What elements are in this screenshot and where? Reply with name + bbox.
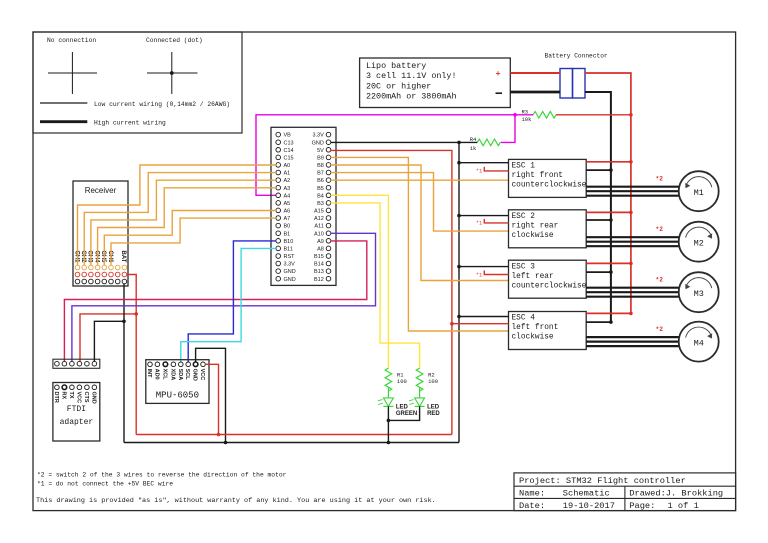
svg-text:CH5: CH5 (100, 251, 106, 264)
Lipo battery BT1 (360, 58, 511, 108)
wire battery - to connector (black, high current) (510, 91, 560, 94)
svg-text:A3: A3 (284, 186, 291, 192)
svg-text:GND: GND (90, 392, 96, 404)
svg-text:B1: B1 (284, 231, 291, 237)
svg-text:*1 = do not connect the +5V BE: *1 = do not connect the +5V BEC wire (37, 481, 173, 488)
svg-text:B7: B7 (317, 171, 324, 177)
motor M3 (679, 272, 719, 312)
wire ESC 3 three motor phases (black, high current) (586, 288, 679, 297)
svg-text:CH1: CH1 (73, 251, 79, 264)
ESC 1 (509, 159, 587, 197)
disclaimer note (36, 497, 436, 505)
svg-text:A9: A9 (317, 239, 324, 245)
LED green D1 (378, 387, 417, 416)
svg-text:No connection: No connection (47, 37, 96, 44)
svg-text:DTR: DTR (53, 392, 59, 403)
svg-text:B9: B9 (317, 156, 324, 162)
motor M1 (679, 171, 719, 211)
svg-text:100: 100 (397, 378, 407, 385)
label *2 for motor M3 (656, 277, 664, 284)
svg-text:Name:: Name: (519, 489, 545, 499)
svg-text:ESC 4: ESC 4 (512, 315, 536, 323)
label *2 for motor M1 (656, 176, 664, 183)
svg-text:A7: A7 (284, 216, 291, 222)
svg-text:5V: 5V (317, 148, 324, 154)
svg-text:right front: right front (512, 172, 563, 180)
STM32 board U2 (271, 127, 336, 285)
wire STM32 B11 to MPU SDA (cyan) (181, 248, 276, 362)
svg-text:A2: A2 (284, 178, 291, 184)
svg-text:XDA: XDA (169, 369, 175, 381)
battery connector J1 (545, 53, 608, 99)
motor M4 (679, 322, 719, 362)
wire STM32 B9 to ESC4 signal (orange) (331, 157, 509, 331)
svg-text:BAT: BAT (120, 251, 126, 263)
wire R3 right lead to V+ rail (red) (556, 113, 633, 117)
svg-text:VB: VB (284, 133, 292, 139)
wire LED cathodes to ground bus (black) (387, 406, 420, 444)
FTDI adapter U4 (53, 383, 100, 442)
svg-text:B6: B6 (317, 178, 324, 184)
svg-text:C13: C13 (284, 140, 294, 146)
svg-text:+: + (496, 69, 501, 79)
resistor R4 1k (470, 136, 501, 152)
svg-text:ESC 2: ESC 2 (512, 213, 536, 221)
svg-text:Low current wiring (0,14mm2 /: Low current wiring (0,14mm2 / 26AWG) (94, 101, 230, 108)
svg-text:counterclockwise: counterclockwise (512, 182, 587, 190)
svg-text:LED: LED (427, 405, 440, 411)
svg-text:B0: B0 (284, 224, 291, 230)
wire ESC 4 +5V BEC to 5V rail (red) (450, 322, 508, 326)
svg-text:100: 100 (428, 378, 438, 385)
svg-text:A1: A1 (284, 171, 291, 177)
svg-text:B12: B12 (314, 277, 324, 283)
svg-text:3 cell 11.1V only!: 3 cell 11.1V only! (366, 71, 456, 81)
wire ESC 3 battery + (red) (586, 262, 633, 266)
svg-text:B4: B4 (317, 193, 324, 199)
svg-text:VCC: VCC (199, 369, 205, 381)
wire receiver BAT + (red) to 5V rail / FTDI VCC (80, 275, 138, 435)
wire ESC 2 battery + (red) (586, 211, 633, 215)
svg-text:GREEN: GREEN (396, 411, 417, 417)
svg-text:ESC 3: ESC 3 (512, 263, 536, 271)
high current wiring legend line (40, 119, 166, 126)
svg-text:1k: 1k (470, 145, 477, 152)
svg-text:20C or higher: 20C or higher (366, 81, 431, 91)
wire ESC 4 signal ground (black) (457, 315, 508, 319)
svg-text:TX: TX (68, 392, 74, 399)
note *1 BEC wire (37, 481, 173, 488)
svg-text:Connected (dot): Connected (dot) (146, 37, 203, 44)
svg-text:B3: B3 (317, 201, 324, 207)
svg-text:C15: C15 (284, 156, 294, 162)
wire STM32 GND to R4 (black) (331, 141, 478, 145)
wire STM32 A10 to FTDI TX (purple) (72, 233, 376, 361)
svg-text:right rear: right rear (512, 223, 559, 231)
legend box (33, 32, 242, 133)
svg-text:1 of 1: 1 of 1 (668, 501, 699, 511)
svg-text:clockwise: clockwise (512, 232, 554, 240)
svg-text:A6: A6 (284, 209, 291, 215)
svg-text:XCL: XCL (161, 369, 167, 381)
svg-text:*1: *1 (476, 271, 483, 278)
svg-text:counterclockwise: counterclockwise (512, 282, 587, 290)
svg-text:M2: M2 (694, 239, 704, 249)
svg-text:*2: *2 (656, 277, 664, 284)
svg-text:VCC: VCC (75, 392, 81, 404)
note *2 motor direction (37, 471, 287, 478)
wire receiver CH1 to STM32 (orange) (78, 165, 277, 265)
svg-text:RED: RED (427, 411, 440, 417)
wire FTDI header GND to ground bus (black) (94, 320, 125, 362)
svg-text:Receiver: Receiver (85, 186, 117, 195)
svg-text:AD0: AD0 (153, 369, 159, 380)
wire STM32 B3 to R2 / red LED (yellow) (331, 203, 420, 369)
wire connector + to V+ rail (red) (585, 73, 631, 313)
wire battery + to connector (red, high current) (510, 72, 560, 74)
resistor R3 10k (522, 109, 556, 123)
svg-text:CH4: CH4 (93, 251, 99, 264)
wire receiver CH4 to STM32 (orange) (98, 188, 276, 266)
resistor R1 100 (385, 368, 407, 391)
wire A4 net: magenta from STM32 A4 to R3/R4 divider (256, 113, 533, 195)
svg-text:adapter: adapter (60, 418, 94, 427)
wire ESC 1 battery - (black) (586, 168, 613, 172)
wire STM32 B7 to ESC2 signal (orange) (331, 173, 509, 232)
wire +5V bottom bus (red) (136, 434, 452, 436)
svg-text:*2: *2 (656, 226, 664, 233)
svg-text:MPU-6050: MPU-6050 (156, 391, 199, 401)
svg-text:B13: B13 (314, 269, 324, 275)
svg-text:*2: *2 (656, 326, 664, 333)
svg-text:RST: RST (284, 254, 296, 260)
svg-text:GND: GND (192, 369, 198, 381)
wire ESC 1 battery + (red) (586, 160, 633, 164)
svg-text:3.3V: 3.3V (312, 133, 324, 139)
svg-text:SDA: SDA (177, 369, 183, 381)
svg-text:A0: A0 (284, 163, 291, 169)
svg-text:M1: M1 (694, 188, 704, 198)
no-connection cross symbol (48, 52, 97, 94)
wire STM32 B8 to ESC3 signal (orange) (331, 165, 509, 281)
resistor R2 100 (416, 368, 438, 391)
title block (514, 473, 736, 511)
svg-text:Lipo battery: Lipo battery (366, 61, 426, 71)
ESC 2 +5V BEC stub *1 (red, not connected) (476, 219, 509, 227)
wire receiver CH2 to STM32 (orange) (84, 173, 276, 266)
svg-text:clockwise: clockwise (512, 334, 554, 342)
svg-text:A8: A8 (317, 247, 324, 253)
wire ESC 3 signal ground (black) (457, 265, 508, 269)
svg-text:INT: INT (146, 369, 152, 379)
wire ESC 1 signal ground (black) (457, 161, 508, 165)
svg-text:10k: 10k (522, 116, 533, 123)
LED red D2 (409, 387, 440, 416)
wire STM32 B6 to ESC1 signal (orange) (331, 179, 509, 181)
svg-text:M4: M4 (694, 338, 704, 348)
svg-text:GND: GND (284, 277, 296, 283)
wire STM32 5V to +5V vertical (red) (331, 150, 452, 434)
svg-text:2200mAh or 3800mAh: 2200mAh or 3800mAh (366, 92, 456, 102)
wire receiver CH3 to STM32 (orange) (91, 180, 276, 265)
svg-text:RX: RX (60, 392, 66, 400)
ESC 3 (509, 260, 587, 298)
svg-text:FTDI: FTDI (67, 405, 86, 414)
svg-text:ESC 1: ESC 1 (512, 163, 536, 171)
svg-text:This drawing is provided "as i: This drawing is provided "as is", withou… (36, 497, 436, 505)
wire STM32 B4 to R1 / green LED (yellow) (331, 195, 389, 368)
svg-text:A5: A5 (284, 201, 291, 207)
svg-text:A4: A4 (284, 193, 291, 199)
wire ESC 1 three motor phases (black, high current) (586, 187, 679, 196)
connected-dot cross symbol (147, 52, 198, 94)
svg-text:B5: B5 (317, 186, 324, 192)
wire STM32 A9 to FTDI RX (crimson) (64, 241, 366, 362)
svg-text:B15: B15 (314, 254, 324, 260)
svg-text:Battery Connector: Battery Connector (545, 53, 608, 60)
wire ESC 2 battery - (black) (586, 218, 613, 222)
svg-text:3.3V: 3.3V (284, 262, 296, 268)
svg-text:Project: STM32 Flight controll: Project: STM32 Flight controller (519, 476, 686, 486)
ESC 1 +5V BEC stub *1 (red, not connected) (476, 167, 509, 175)
svg-text:Drawed:J. Brokking: Drawed:J. Brokking (629, 489, 723, 499)
wire connector - to GND power rail (black) (585, 92, 611, 322)
svg-text:A12: A12 (314, 216, 324, 222)
motor M2 (679, 222, 719, 262)
label *2 for motor M2 (656, 226, 664, 233)
wire ESC 2 signal ground (black) (457, 214, 508, 218)
svg-text:A10: A10 (314, 231, 324, 237)
wire MPU GND to ground bus (black) (196, 348, 228, 444)
svg-text:C14: C14 (284, 148, 294, 154)
Receiver U3 (73, 181, 128, 286)
wire ESC 4 battery - (black) (586, 320, 613, 324)
svg-text:B11: B11 (284, 247, 293, 253)
svg-text:GND: GND (312, 140, 324, 146)
ESC 2 (509, 210, 587, 248)
wire receiver CH5 to STM32 (orange) (104, 211, 276, 266)
svg-text:SCL: SCL (184, 369, 190, 381)
svg-text:High current wiring: High current wiring (94, 119, 166, 126)
wire ESC 3 battery - (black) (586, 270, 613, 274)
svg-text:B10: B10 (284, 239, 294, 245)
svg-text:A15: A15 (314, 209, 324, 215)
label *2 for motor M4 (656, 326, 664, 333)
svg-text:B8: B8 (317, 163, 324, 169)
svg-text:Date:: Date: (519, 501, 545, 511)
wire ground bottom bus (black) (124, 442, 459, 444)
wire ESC 4 three motor phases (black, high current) (586, 337, 679, 346)
svg-text:19-10-2017: 19-10-2017 (563, 501, 615, 511)
wire receiver GND (black) down to ground bus (123, 284, 125, 443)
ESC 4 (509, 312, 587, 350)
svg-text:CH6: CH6 (107, 251, 113, 264)
svg-text:left front: left front (512, 324, 559, 332)
svg-text:GND: GND (284, 269, 296, 275)
svg-text:*1: *1 (476, 168, 483, 175)
svg-text:A11: A11 (314, 224, 323, 230)
wire ESC 2 three motor phases (black, high current) (586, 237, 679, 246)
wire STM32 B10 to MPU SCL (dark blue) (188, 241, 276, 362)
svg-text:CH2: CH2 (80, 251, 86, 264)
svg-text:LED: LED (396, 405, 409, 411)
wire MPU VCC to +5V bus (red) (205, 364, 220, 436)
wire receiver CH6 to STM32 (orange) (111, 218, 276, 265)
wire ESC signal-ground vertical bus (black) (458, 142, 460, 442)
svg-text:Schematic: Schematic (563, 489, 610, 499)
svg-text:*2: *2 (656, 176, 664, 183)
svg-text:*1: *1 (476, 220, 483, 227)
svg-text:CH3: CH3 (87, 251, 93, 264)
svg-text:CTS: CTS (83, 392, 89, 403)
low current wiring legend line (40, 101, 230, 108)
svg-text:left rear: left rear (512, 273, 554, 281)
svg-text:Page:: Page: (629, 501, 655, 511)
svg-text:M3: M3 (694, 289, 704, 299)
MPU-6050 gyro U1 (146, 360, 209, 404)
FTDI 6-pin header J2 (53, 359, 100, 368)
svg-text:B14: B14 (314, 262, 324, 268)
ESC 3 +5V BEC stub *1 (red, not connected) (476, 271, 509, 279)
wire ESC 4 battery + (red) (586, 312, 633, 316)
svg-text:*2 = switch 2 of the 3 wires t: *2 = switch 2 of the 3 wires to reverse … (37, 471, 287, 478)
